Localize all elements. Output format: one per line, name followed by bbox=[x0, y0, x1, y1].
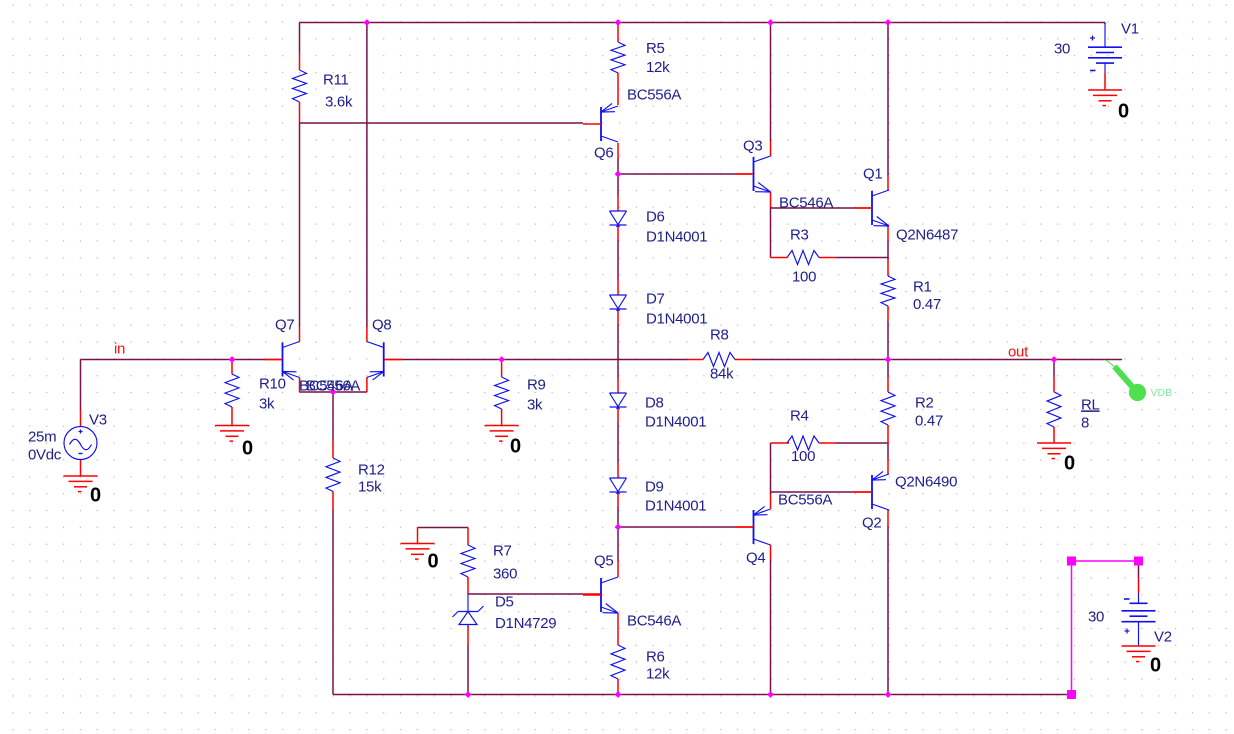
transistor Q7 bbox=[282, 343, 284, 377]
svg-text:Q1: Q1 bbox=[863, 165, 882, 182]
V2 plus mark bbox=[1125, 630, 1130, 632]
svg-text:D1N4001: D1N4001 bbox=[645, 497, 706, 514]
selected wire V2 vertical bbox=[1071, 561, 1073, 695]
svg-text:D6: D6 bbox=[646, 208, 665, 225]
pin Q8 base bbox=[384, 359, 401, 361]
wire R11 top drop bbox=[299, 23, 301, 54]
pin Q4 base bbox=[736, 526, 754, 528]
transistor Q1 bbox=[871, 191, 873, 225]
pin R9 top bbox=[501, 360, 503, 378]
diode D9 bbox=[610, 477, 627, 479]
diode D8 bbox=[610, 392, 627, 394]
wire to Q2 base bbox=[771, 491, 855, 493]
svg-text:BC546A: BC546A bbox=[627, 612, 681, 629]
svg-text:12k: 12k bbox=[646, 59, 670, 76]
svg-text:8: 8 bbox=[1081, 414, 1089, 431]
wire R5 node to Q3 base bbox=[618, 173, 736, 175]
pin R1 top bbox=[887, 260, 889, 276]
ground under V1 bbox=[1088, 89, 1122, 91]
wire R11 bottom to Q6 base bbox=[300, 122, 584, 124]
pin gnd near R7 bbox=[417, 528, 419, 544]
junction node K bbox=[615, 524, 622, 531]
resistor R8 bbox=[703, 353, 735, 367]
svg-text:R10: R10 bbox=[259, 375, 286, 392]
pin Q2 collector bbox=[887, 510, 889, 526]
pin R3 left bbox=[771, 257, 788, 259]
svg-text:R4: R4 bbox=[790, 407, 809, 424]
wire out node to R2 bbox=[887, 360, 889, 378]
pin Q3 base bbox=[736, 173, 754, 175]
svg-text:BC546A: BC546A bbox=[779, 194, 833, 211]
svg-text:R8: R8 bbox=[710, 326, 729, 343]
svg-text:3k: 3k bbox=[527, 396, 543, 413]
junction node C bbox=[767, 19, 774, 26]
V1 minus mark bbox=[1090, 70, 1096, 72]
pin R8 right bbox=[735, 359, 752, 361]
selected wire V2 horizontal bbox=[1072, 560, 1139, 562]
svg-text:D1N4001: D1N4001 bbox=[646, 228, 707, 245]
pin Q5 base bbox=[583, 593, 601, 595]
svg-text:D1N4001: D1N4001 bbox=[645, 413, 706, 430]
wire top power rail bbox=[300, 22, 1106, 24]
pin R1 bottom bbox=[887, 306, 889, 321]
svg-text:out: out bbox=[1008, 343, 1029, 360]
wire main output net left part bbox=[401, 359, 687, 361]
diode D7 bbox=[610, 294, 627, 296]
diode D6 bbox=[610, 210, 627, 212]
pin R5 top bbox=[617, 23, 619, 42]
pin R5 bottom / Q6 emitter bbox=[617, 73, 619, 105]
pin RL top bbox=[1053, 377, 1055, 392]
svg-text:30: 30 bbox=[1088, 608, 1104, 625]
pin R8 left bbox=[687, 359, 703, 361]
pin Q2 base bbox=[854, 491, 872, 493]
svg-text:0: 0 bbox=[1118, 101, 1129, 123]
pin R9 bottom bbox=[501, 409, 503, 426]
pin Q1 base bbox=[854, 207, 872, 209]
resistor R6 bbox=[611, 645, 625, 679]
pin Q4 emitter bbox=[770, 494, 772, 509]
svg-text:12k: 12k bbox=[646, 665, 670, 682]
svg-text:R12: R12 bbox=[358, 461, 385, 478]
pin D8 bottom bbox=[617, 407, 619, 422]
junction node E bbox=[615, 171, 622, 178]
battery V2 bbox=[1138, 593, 1140, 603]
svg-text:V2: V2 bbox=[1154, 628, 1172, 645]
svg-text:360: 360 bbox=[493, 565, 517, 582]
svg-text:in: in bbox=[114, 340, 125, 357]
junction node M bbox=[615, 691, 622, 698]
wire RL drop bbox=[1053, 360, 1055, 378]
wire R4 right end bbox=[836, 442, 888, 444]
svg-text:100: 100 bbox=[792, 268, 816, 285]
wire top rail drop to Q8 collector bbox=[366, 23, 368, 328]
pin Q5 collector bbox=[617, 562, 619, 577]
pin Q3 collector bbox=[770, 141, 772, 156]
svg-text:RL: RL bbox=[1081, 396, 1100, 413]
pin Q8 emitter bbox=[366, 378, 368, 393]
wire R1 bottom to out node bbox=[887, 321, 889, 360]
resistor R11 bbox=[293, 70, 307, 102]
V1 plus mark bbox=[1090, 37, 1095, 39]
wire R4 left node down bbox=[770, 443, 772, 494]
pin R6 bottom bbox=[617, 679, 619, 695]
svg-text:D1N4729: D1N4729 bbox=[495, 615, 556, 632]
transistor Q8 bbox=[383, 343, 385, 377]
pin D7 top bbox=[617, 280, 619, 295]
ground under V2 bbox=[1122, 645, 1156, 647]
svg-text:BC556A: BC556A bbox=[627, 86, 681, 103]
svg-text:0.47: 0.47 bbox=[913, 296, 941, 313]
resistor R3 bbox=[787, 251, 819, 265]
pin D6 bottom bbox=[617, 225, 619, 240]
pin Q5 emitter / R6 top bbox=[617, 613, 619, 645]
svg-text:Q7: Q7 bbox=[275, 316, 294, 333]
pin V2 top bbox=[1138, 578, 1140, 593]
ground under V3 bbox=[64, 475, 98, 477]
resistor R7 bbox=[461, 545, 475, 577]
wire R3 right to R1 node bbox=[836, 257, 888, 259]
svg-text:3k: 3k bbox=[259, 395, 275, 412]
transistor Q5 bbox=[600, 578, 602, 612]
selection handle 3 bbox=[1067, 690, 1076, 699]
pin Q7 base bbox=[265, 359, 283, 361]
pin D5 bottom bbox=[467, 626, 469, 645]
pin R10 bottom bbox=[231, 407, 233, 426]
pin Q6 collector bbox=[617, 143, 619, 158]
svg-text:0: 0 bbox=[1064, 453, 1075, 475]
pin R3 right bbox=[819, 257, 836, 259]
svg-text:0: 0 bbox=[1150, 655, 1161, 677]
svg-text:0: 0 bbox=[510, 436, 521, 458]
wire Q1 collector up to rail bbox=[887, 23, 889, 176]
wire Q2 collector to bottom rail bbox=[887, 526, 889, 695]
wire D5 bottom to rail bbox=[467, 645, 469, 695]
svg-text:R7: R7 bbox=[493, 542, 512, 559]
svg-text:D8: D8 bbox=[645, 394, 664, 411]
transistor Q4 bbox=[753, 510, 755, 544]
svg-text:D9: D9 bbox=[645, 478, 664, 495]
pin D6 top bbox=[617, 196, 619, 211]
junction node O bbox=[885, 691, 892, 698]
svg-text:Q8: Q8 bbox=[372, 316, 391, 333]
svg-text:0Vdc: 0Vdc bbox=[28, 446, 62, 463]
pin Q4 collector bbox=[770, 545, 772, 560]
wire Q3 emitter to Q1 base bbox=[771, 207, 855, 209]
svg-text:R9: R9 bbox=[527, 376, 546, 393]
wire Q7 Q8 emitter join bbox=[300, 391, 367, 393]
pin D9 bottom bbox=[617, 492, 619, 507]
svg-text:Q2N6490: Q2N6490 bbox=[895, 473, 957, 490]
transistor Q3 bbox=[753, 157, 755, 191]
pin Q8 collector bbox=[366, 327, 368, 342]
ground under R9 bbox=[485, 425, 519, 427]
resistor R4 bbox=[787, 436, 819, 450]
pin Q7 collector bbox=[299, 327, 301, 342]
svg-text:R3: R3 bbox=[790, 226, 809, 243]
wire R7 ground corner bbox=[417, 527, 419, 530]
pin R7 top bbox=[467, 528, 469, 546]
junction node I bbox=[1051, 356, 1058, 363]
wire V1 corner drop bbox=[1104, 23, 1106, 25]
pin R11 bottom bbox=[299, 102, 301, 123]
junction node D bbox=[885, 19, 892, 26]
pin V3 bottom bbox=[80, 460, 82, 477]
pin D7 bottom bbox=[617, 309, 619, 324]
battery V1 bbox=[1104, 23, 1106, 47]
pin R2 bottom bbox=[887, 425, 889, 443]
sine source V3 bbox=[64, 427, 97, 460]
ground under R10 bbox=[215, 425, 249, 427]
svg-text:0: 0 bbox=[242, 438, 253, 460]
svg-text:D7: D7 bbox=[646, 290, 665, 307]
wire R7 bottom to Q5 base bbox=[468, 593, 583, 595]
junction node G bbox=[498, 356, 505, 363]
ground near R7 bbox=[401, 543, 435, 545]
pin R4 right bbox=[819, 442, 836, 444]
wire tail down to R12 bbox=[332, 392, 334, 441]
resistor RL bbox=[1047, 392, 1061, 427]
svg-text:0.47: 0.47 bbox=[915, 412, 943, 429]
wire main output net right part bbox=[752, 359, 1122, 361]
pin D8 top bbox=[617, 378, 619, 393]
pin V1 bottom bbox=[1104, 73, 1106, 90]
svg-text:3.6k: 3.6k bbox=[325, 93, 353, 110]
wire bottom rail bbox=[333, 694, 1072, 696]
svg-text:Q2: Q2 bbox=[862, 514, 881, 531]
wire in net to Q7 base bbox=[81, 359, 266, 361]
junction node N bbox=[767, 691, 774, 698]
junction node A bbox=[364, 19, 371, 26]
wire D9 node to Q4 base bbox=[618, 526, 736, 528]
zener diode D5 bbox=[467, 594, 469, 612]
selection handle 1 bbox=[1067, 557, 1076, 566]
resistor R1 bbox=[881, 276, 895, 306]
svg-text:100: 100 bbox=[791, 448, 815, 465]
pin V3 top bbox=[80, 410, 82, 427]
svg-text:30: 30 bbox=[1054, 40, 1070, 57]
svg-text:V3: V3 bbox=[89, 411, 107, 428]
junction node B bbox=[615, 19, 622, 26]
svg-text:R5: R5 bbox=[646, 40, 665, 57]
pin R12 bottom bbox=[332, 492, 334, 511]
resistor R9 bbox=[495, 377, 509, 409]
pin R7 bottom bbox=[467, 577, 469, 594]
V2 minus mark bbox=[1124, 598, 1130, 600]
svg-text:VDB: VDB bbox=[1151, 387, 1173, 399]
svg-text:BC556A: BC556A bbox=[306, 377, 360, 394]
svg-text:R6: R6 bbox=[646, 648, 665, 665]
wire Q3 emitter down to R3 bbox=[770, 207, 772, 258]
svg-text:D5: D5 bbox=[495, 593, 514, 610]
pin R4 left bbox=[771, 442, 790, 444]
resistor R12 bbox=[326, 458, 340, 492]
selection handle 2 bbox=[1134, 557, 1143, 566]
voltage probe VDB bbox=[1106, 360, 1116, 368]
pin R11 top bbox=[299, 53, 301, 70]
svg-text:Q4: Q4 bbox=[746, 549, 765, 566]
transistor Q2 bbox=[871, 475, 873, 509]
pin R2 top bbox=[887, 377, 889, 392]
pin D9 top bbox=[617, 463, 619, 478]
resistor R10 bbox=[225, 374, 239, 407]
svg-text:D1N4001: D1N4001 bbox=[646, 310, 707, 327]
svg-text:Q2N6487: Q2N6487 bbox=[896, 226, 958, 243]
wire R11 node down to Q7 collector bbox=[299, 123, 301, 327]
svg-text:84k: 84k bbox=[710, 365, 734, 382]
wire R2 bottom to R4 node bbox=[887, 443, 889, 459]
junction node J bbox=[330, 389, 337, 396]
junction node F bbox=[229, 356, 236, 363]
svg-text:0: 0 bbox=[428, 551, 439, 573]
pin Q2 emitter bbox=[887, 459, 889, 474]
svg-text:Q5: Q5 bbox=[594, 552, 613, 569]
svg-text:R11: R11 bbox=[323, 71, 349, 88]
svg-text:R1: R1 bbox=[913, 278, 932, 295]
junction node L bbox=[465, 691, 472, 698]
junction node H bbox=[885, 356, 892, 363]
transistor Q6 bbox=[600, 107, 602, 141]
wire R12 to bottom rail bbox=[332, 510, 334, 695]
svg-text:0: 0 bbox=[90, 485, 101, 507]
resistor R5 bbox=[611, 42, 625, 73]
pin R10 top bbox=[231, 360, 233, 375]
pin RL bottom bbox=[1053, 427, 1055, 443]
pin Q7 emitter bbox=[299, 378, 301, 393]
pin Q3 emitter bbox=[770, 192, 772, 207]
wire V3 drop bbox=[80, 360, 82, 411]
svg-text:25m: 25m bbox=[28, 428, 56, 445]
wire V2 stub below handle bbox=[1138, 561, 1140, 578]
wire D9 node down to Q5 collector bbox=[617, 527, 619, 562]
svg-text:V1: V1 bbox=[1121, 20, 1139, 37]
wire Q3 collector up to rail bbox=[770, 23, 772, 142]
wire Q1 emitter to R1 bbox=[887, 241, 889, 260]
svg-text:BC556A: BC556A bbox=[778, 491, 832, 508]
svg-text:Q3: Q3 bbox=[743, 137, 762, 154]
svg-text:R2: R2 bbox=[915, 394, 934, 411]
pin R12 top bbox=[332, 441, 334, 458]
pin Q1 emitter bbox=[887, 226, 889, 241]
svg-text:15k: 15k bbox=[358, 478, 382, 495]
svg-text:Q6: Q6 bbox=[594, 144, 613, 161]
pin Q1 collector bbox=[887, 175, 889, 190]
ground under RL bbox=[1037, 442, 1071, 444]
wire Q4 collector to bottom rail bbox=[770, 560, 772, 695]
resistor R2 bbox=[881, 392, 895, 425]
wire diode chain segments bbox=[617, 158, 619, 196]
